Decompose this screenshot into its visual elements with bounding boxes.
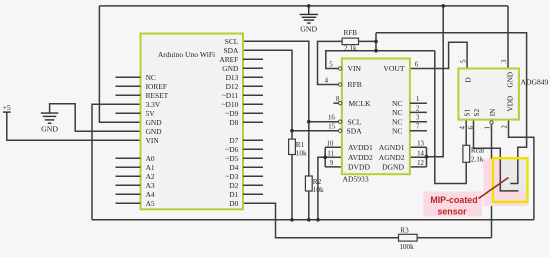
svg-text:VOUT: VOUT xyxy=(383,64,404,73)
svg-text:3.3V: 3.3V xyxy=(146,100,161,109)
svg-text:S1: S1 xyxy=(464,109,472,117)
svg-text:SDA: SDA xyxy=(224,46,239,55)
svg-text:R3: R3 xyxy=(400,226,409,234)
wire ground rail left drop to Arduino GND pin xyxy=(99,6,140,122)
svg-text:~D11: ~D11 xyxy=(222,91,239,100)
wire Arduino SDA to R1 and AD5933 SDA xyxy=(243,50,292,139)
svg-text:Arduino Uno WiFi: Arduino Uno WiFi xyxy=(158,50,215,59)
svg-text:6: 6 xyxy=(415,62,419,69)
svg-text:R1: R1 xyxy=(296,141,305,149)
node RFB resistor right xyxy=(374,40,378,44)
svg-text:7: 7 xyxy=(416,124,420,131)
svg-text:5V: 5V xyxy=(146,109,156,118)
svg-text:100k: 100k xyxy=(399,243,414,251)
svg-text:D0: D0 xyxy=(229,199,238,208)
wire Arduino SCL to R2 and AD5933 SCL xyxy=(243,41,309,176)
wire RFB resistor right to node xyxy=(359,40,377,42)
svg-text:~D5: ~D5 xyxy=(225,154,238,163)
resistor Rcal 2.1k xyxy=(463,145,484,163)
svg-text:13: 13 xyxy=(417,140,424,147)
svg-text:3: 3 xyxy=(501,59,508,63)
node R2 bottom on rail xyxy=(307,218,311,222)
resistor RFB xyxy=(342,29,358,52)
svg-text:NC: NC xyxy=(392,99,403,108)
svg-text:A2: A2 xyxy=(146,172,155,181)
svg-text:D2: D2 xyxy=(229,181,238,190)
wire AD5933 AGND bracket bar xyxy=(426,147,428,167)
svg-text:GND: GND xyxy=(146,127,163,136)
ADG849 internal labels rotated xyxy=(464,72,515,117)
svg-text:AREF: AREF xyxy=(219,55,238,64)
svg-text:GND: GND xyxy=(300,25,317,34)
wire ground rail drop to ADG849 GND pin 3 xyxy=(507,6,509,69)
AD5933 MCLK stub pin 8 xyxy=(334,102,339,104)
wire R2 bottom to rail xyxy=(308,191,310,220)
wire ADG849 IN pin 1 control line xyxy=(491,124,493,237)
svg-text:2.1k: 2.1k xyxy=(471,156,484,164)
node SDA branch xyxy=(290,129,294,133)
wire DGND stub xyxy=(410,166,427,168)
AD5933 NC pin stubs xyxy=(410,103,427,131)
wire Arduino 3.3V to bottom 3.3V rail xyxy=(92,104,141,220)
svg-text:GND: GND xyxy=(507,72,515,88)
svg-text:AGND1: AGND1 xyxy=(379,143,405,152)
MIP-coated sensor pink highlight xyxy=(424,192,483,217)
svg-text:~D3: ~D3 xyxy=(225,172,238,181)
ground top symbol xyxy=(300,6,318,23)
AD5933 U2 box xyxy=(342,59,410,184)
node AVDD feed on rail xyxy=(316,218,320,222)
svg-text:NC: NC xyxy=(392,126,403,135)
svg-text:15: 15 xyxy=(328,124,335,131)
wire +5 supply to Arduino VIN xyxy=(7,112,141,140)
svg-text:NC: NC xyxy=(392,117,403,126)
svg-text:NC: NC xyxy=(392,108,403,117)
svg-text:SCL: SCL xyxy=(225,37,239,46)
wire AVDD1 stub xyxy=(325,146,342,148)
Arduino Uno WiFi U1 box xyxy=(141,34,244,210)
power +5 symbol xyxy=(3,111,11,113)
wire Arduino D0 to R3 control line xyxy=(243,203,399,237)
svg-text:VIN: VIN xyxy=(146,136,160,145)
svg-text:D4: D4 xyxy=(229,163,238,172)
wire SDA branch into AD5933 pin 15 xyxy=(292,130,339,132)
svg-text:+5: +5 xyxy=(3,103,11,112)
svg-text:8: 8 xyxy=(336,96,340,103)
Arduino left pin stubs xyxy=(116,77,141,203)
svg-text:D7: D7 xyxy=(229,136,238,145)
wire ADG849 S2 pin 6 to sensor electrode xyxy=(474,120,519,191)
node ground rail / GND symbol xyxy=(307,4,311,8)
node SCL branch xyxy=(307,120,311,124)
arrow to sensor xyxy=(479,178,509,199)
wire R1 bottom to rail xyxy=(291,155,293,220)
wire left GND symbol to Arduino GND xyxy=(50,104,141,132)
wire AD5933 VIN pin 5 jog xyxy=(326,51,435,69)
svg-text:DVDD: DVDD xyxy=(348,163,370,172)
svg-text:A1: A1 xyxy=(146,163,155,172)
ground left symbol xyxy=(41,113,59,123)
svg-text:A3: A3 xyxy=(146,181,155,190)
wire AGND1 stub xyxy=(410,146,427,148)
svg-text:12: 12 xyxy=(417,160,424,167)
svg-text:1: 1 xyxy=(416,96,419,103)
sensor electrodes redraw over pad xyxy=(500,158,518,191)
resistor R2 10k xyxy=(305,176,324,194)
svg-text:D1: D1 xyxy=(229,190,238,199)
resistor R3 100k xyxy=(399,226,418,251)
AD5933 internal labels xyxy=(347,64,373,171)
svg-text:2: 2 xyxy=(416,105,420,112)
junction dots xyxy=(290,4,445,222)
node VIN line xyxy=(374,49,378,53)
AD5933 pin circles xyxy=(339,67,342,133)
Arduino right pin labels xyxy=(219,37,239,208)
svg-text:10k: 10k xyxy=(313,186,324,194)
svg-text:D12: D12 xyxy=(226,82,239,91)
wire VIN return down to Rcal bottom xyxy=(435,51,466,184)
Arduino right pin stubs xyxy=(243,59,263,194)
wire AD5933 RFB pin 4 to RFB resistor xyxy=(318,41,343,84)
ADG849 pin numbers rotated xyxy=(460,59,509,130)
svg-text:A4: A4 xyxy=(146,190,155,199)
wire VIN rail to sensor electrode xyxy=(376,33,527,184)
svg-text:GND: GND xyxy=(222,64,239,73)
wire bottom 3.3V rail xyxy=(92,219,534,221)
svg-text:RESET: RESET xyxy=(146,91,169,100)
svg-text:IOREF: IOREF xyxy=(146,82,167,91)
wire DVDD stub xyxy=(325,166,342,168)
wire node vertical segment xyxy=(375,33,377,51)
svg-text:16: 16 xyxy=(328,115,335,122)
svg-text:~D9: ~D9 xyxy=(225,109,238,118)
ADG849 U3 box xyxy=(458,69,548,120)
resistor R1 10k xyxy=(289,139,307,157)
svg-text:A5: A5 xyxy=(146,199,155,208)
svg-text:SDA: SDA xyxy=(347,126,363,135)
svg-text:~D6: ~D6 xyxy=(225,145,238,154)
svg-text:Rcal: Rcal xyxy=(471,146,484,154)
svg-text:1: 1 xyxy=(485,126,492,129)
svg-text:R2: R2 xyxy=(313,178,322,186)
svg-text:5: 5 xyxy=(461,59,468,63)
svg-text:MIP-coated: MIP-coated xyxy=(430,195,477,205)
wire AVDD2 stub xyxy=(325,156,342,158)
svg-text:VIN: VIN xyxy=(348,64,362,73)
node AVDD bracket xyxy=(323,156,327,160)
svg-text:RFB: RFB xyxy=(348,80,362,89)
svg-text:14: 14 xyxy=(417,150,424,157)
svg-text:6: 6 xyxy=(468,126,475,130)
svg-text:AGND2: AGND2 xyxy=(379,153,405,162)
sensor gray pad xyxy=(502,158,527,191)
wire ADG849 VDD pin 2 to 3.3V rail xyxy=(509,120,534,220)
Arduino left pin labels xyxy=(146,73,169,208)
svg-text:NC: NC xyxy=(146,73,156,82)
wire R3 to ADG849 IN line xyxy=(417,237,491,239)
svg-text:SCL: SCL xyxy=(348,117,362,126)
svg-text:3: 3 xyxy=(416,115,420,122)
svg-text:4: 4 xyxy=(325,78,329,85)
wire AD5933 VOUT to ADG849 D pin 5 xyxy=(410,42,467,68)
wire ground branch to AD5933 AGND bracket xyxy=(427,6,444,157)
wire AD5933 AVDD bracket bar xyxy=(324,147,326,167)
svg-text:ADG849: ADG849 xyxy=(521,78,549,87)
svg-text:9: 9 xyxy=(330,160,334,167)
node ground rail / AGND branch xyxy=(441,4,445,8)
svg-text:S2: S2 xyxy=(473,109,481,117)
svg-text:10k: 10k xyxy=(296,149,307,157)
svg-text:A0: A0 xyxy=(146,154,155,163)
ADG849 IN pin circle xyxy=(490,121,493,124)
AD5933 pin numbers xyxy=(325,62,425,167)
svg-text:11: 11 xyxy=(327,150,334,157)
node AGND bracket xyxy=(425,155,429,159)
svg-text:RFB: RFB xyxy=(344,29,358,37)
svg-text:5: 5 xyxy=(329,62,333,69)
svg-text:AVDD2: AVDD2 xyxy=(348,153,373,162)
wire top ground rail xyxy=(99,5,508,7)
svg-text:DGND: DGND xyxy=(382,163,404,172)
svg-text:D: D xyxy=(464,77,472,82)
svg-text:10: 10 xyxy=(327,140,334,147)
svg-text:4: 4 xyxy=(460,126,467,130)
svg-text:D13: D13 xyxy=(226,73,239,82)
svg-text:GND: GND xyxy=(146,118,163,127)
sensor yellow box xyxy=(493,158,528,202)
svg-text:VDD: VDD xyxy=(507,96,515,112)
node R1 bottom on rail xyxy=(290,218,294,222)
svg-text:AVDD1: AVDD1 xyxy=(348,143,373,152)
svg-text:IN: IN xyxy=(489,108,497,116)
wire ADG849 S1 pin 4 to Rcal xyxy=(465,120,467,146)
svg-text:MCLK: MCLK xyxy=(349,99,371,108)
wire AVDD bracket to 3.3V rail xyxy=(318,157,325,220)
wire AGND2 stub xyxy=(410,156,427,158)
svg-text:sensor: sensor xyxy=(437,206,467,216)
wire SCL branch into AD5933 pin 16 xyxy=(309,121,339,123)
svg-text:GND: GND xyxy=(41,125,58,134)
svg-text:D8: D8 xyxy=(229,118,238,127)
svg-text:2: 2 xyxy=(501,125,508,129)
svg-text:AD5933: AD5933 xyxy=(343,175,369,184)
svg-text:2.1k: 2.1k xyxy=(344,44,357,52)
svg-text:~D10: ~D10 xyxy=(222,100,239,109)
